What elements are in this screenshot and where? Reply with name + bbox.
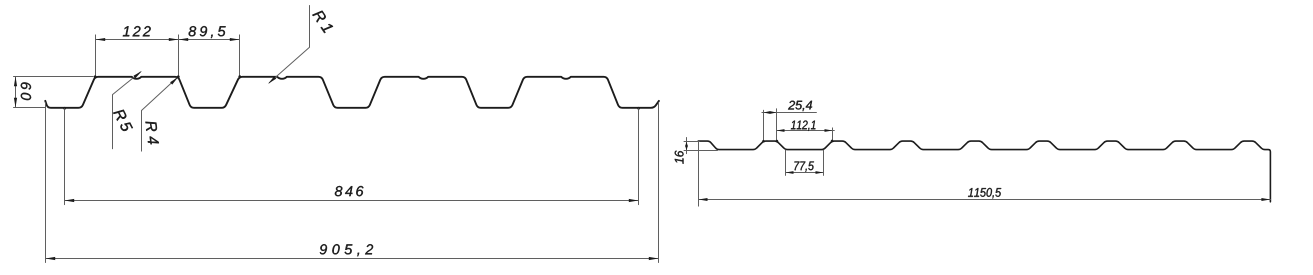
- text R4: [145, 120, 158, 144]
- dimension 16 (right profile height): [684, 138, 718, 154]
- dimension 1150,5 (overall width right profile): [699, 142, 1271, 206]
- text 905,2: [320, 244, 373, 256]
- dimension 846 (between outer rib valleys): [65, 109, 639, 205]
- left profile sheet outline (trapezoidal deck section, 60 mm deep): [45, 77, 659, 108]
- dimension 25,4 (lip flat width): [762, 109, 817, 141]
- text 846: [335, 186, 364, 196]
- text 16: [675, 151, 684, 164]
- dimension 905,2 (overall cover width left profile): [46, 103, 659, 263]
- text 112,1: [791, 121, 816, 131]
- text 60: [21, 82, 31, 100]
- junction dots right drawing: [762, 140, 833, 143]
- text 122: [123, 26, 151, 36]
- text R1: [312, 9, 333, 33]
- dimension 89,5 (rib top width): [179, 35, 240, 77]
- text 89,5: [189, 26, 226, 38]
- right profile sheet outline (shallow trapezoidal sheet, 16 mm deep): [698, 141, 1270, 202]
- leader R5 (groove radius): [113, 72, 141, 149]
- dimension 122 (top flat width): [96, 35, 179, 77]
- leader R1 (top flat groove radius): [269, 6, 309, 83]
- text 77,5: [794, 162, 814, 172]
- dimension 77,5 (valley bottom width): [786, 150, 824, 175]
- text 25,4: [788, 101, 812, 111]
- dimension 60 (left profile height): [14, 77, 94, 108]
- leader R4 (rib corner radius): [142, 78, 177, 151]
- dimension 112,1 (valley top width): [777, 128, 835, 141]
- text R5: [113, 108, 133, 133]
- text 1150,5: [968, 188, 1001, 198]
- junction dots left drawing: [63, 75, 640, 110]
